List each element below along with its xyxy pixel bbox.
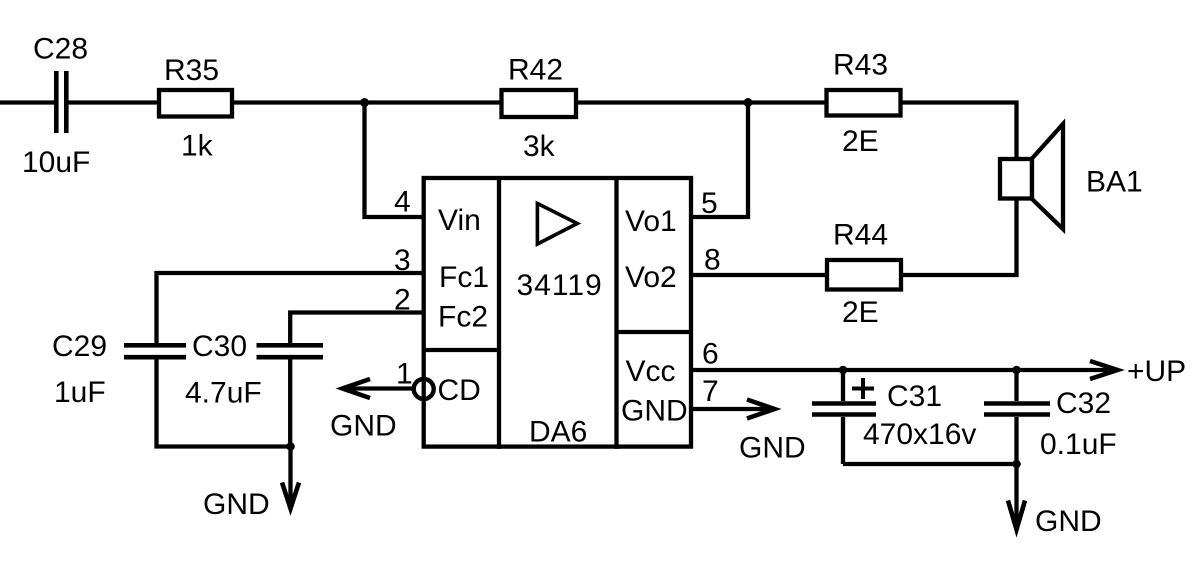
- svg-text:Vo1: Vo1: [625, 205, 677, 238]
- node junction ground rail: [286, 442, 295, 451]
- svg-text:1k: 1k: [181, 130, 214, 163]
- svg-text:0.1uF: 0.1uF: [1040, 428, 1117, 461]
- svg-text:8: 8: [704, 244, 721, 277]
- svg-text:GND: GND: [330, 410, 397, 443]
- ground arrow right GND: [1008, 464, 1102, 538]
- capacitor C30: [185, 330, 323, 410]
- resistor R43: [827, 49, 901, 159]
- svg-text:1: 1: [396, 358, 413, 391]
- wire pin 2 to C30: [290, 313, 424, 344]
- pin 1 CD node circle: [414, 379, 434, 399]
- svg-text:R42: R42: [508, 54, 563, 87]
- svg-text:R44: R44: [833, 219, 888, 252]
- svg-text:Vin: Vin: [438, 204, 481, 237]
- node junction C31 on Vcc rail: [839, 366, 848, 375]
- wire input to C28: [0, 100, 54, 104]
- svg-text:6: 6: [702, 338, 719, 371]
- svg-text:C29: C29: [52, 330, 107, 363]
- resistor R35: [159, 54, 232, 163]
- svg-text:2E: 2E: [842, 125, 879, 158]
- svg-text:Vo2: Vo2: [625, 261, 677, 294]
- svg-text:C28: C28: [33, 33, 88, 66]
- svg-text:5: 5: [701, 187, 718, 220]
- wire R35 to R42: [234, 100, 501, 104]
- svg-text:GND: GND: [739, 432, 806, 465]
- svg-text:470x16v: 470x16v: [863, 418, 976, 451]
- svg-text:CD: CD: [438, 374, 481, 407]
- svg-text:7: 7: [702, 375, 719, 408]
- arrow pin 7 to GND right: [691, 400, 806, 465]
- wire C31 to C32 bottom rail: [843, 462, 1017, 466]
- arrow pin 1 to GND left: [330, 379, 412, 443]
- capacitor C32: [984, 370, 1117, 464]
- svg-text:4.7uF: 4.7uF: [185, 377, 262, 410]
- resistor R44: [827, 219, 901, 330]
- node junction C32 on Vcc rail: [1012, 366, 1021, 375]
- svg-text:2E: 2E: [842, 296, 879, 329]
- op-amp U1 34119 DA6 body: [424, 176, 691, 449]
- svg-text:GND: GND: [1035, 505, 1102, 538]
- svg-text:3k: 3k: [523, 130, 556, 163]
- svg-text:Vcc: Vcc: [626, 355, 676, 388]
- svg-text:1uF: 1uF: [54, 376, 106, 409]
- wire R42 to R43: [576, 100, 827, 104]
- svg-text:C30: C30: [192, 330, 247, 363]
- wire C28 to R35: [69, 100, 160, 104]
- wire speaker bottom to R44: [901, 199, 1017, 276]
- svg-text:+UP: +UP: [1127, 355, 1186, 388]
- speaker BA1: [1000, 124, 1143, 229]
- wire C29 to ground rail: [157, 360, 292, 447]
- node junction bottom rail: [1012, 460, 1021, 469]
- svg-text:R35: R35: [164, 54, 219, 87]
- node junction at pin5 branch: [744, 98, 753, 107]
- svg-text:Fc1: Fc1: [439, 261, 489, 294]
- wire junction down to pin 4: [365, 103, 425, 218]
- +UP arrow: [1090, 355, 1186, 388]
- amplifier triangle symbol: [537, 203, 577, 244]
- svg-text:C32: C32: [1056, 387, 1111, 420]
- svg-text:BA1: BA1: [1086, 166, 1143, 199]
- wire R44 to pin 8: [691, 273, 828, 277]
- svg-text:Fc2: Fc2: [438, 301, 488, 334]
- svg-text:GND: GND: [203, 488, 270, 521]
- wire R43 to speaker top: [901, 103, 1017, 161]
- svg-text:R43: R43: [833, 49, 888, 82]
- capacitor C31: [812, 370, 976, 464]
- svg-text:GND: GND: [621, 395, 688, 428]
- svg-text:DA6: DA6: [529, 415, 587, 448]
- wire C30 to ground rail: [288, 360, 292, 447]
- ground arrow left GND: [203, 447, 299, 522]
- resistor R42: [502, 54, 577, 164]
- capacitor C28: [22, 33, 90, 180]
- wire pin 6 Vcc to +UP: [691, 368, 1114, 372]
- svg-text:4: 4: [394, 186, 411, 219]
- wire junction down to pin 5: [691, 103, 749, 218]
- capacitor C29: [52, 330, 186, 409]
- svg-text:C31: C31: [887, 380, 942, 413]
- wire pin 3 to C29: [157, 273, 425, 343]
- node junction at pin4 branch: [360, 98, 369, 107]
- svg-text:10uF: 10uF: [22, 146, 90, 179]
- svg-text:34119: 34119: [517, 269, 603, 302]
